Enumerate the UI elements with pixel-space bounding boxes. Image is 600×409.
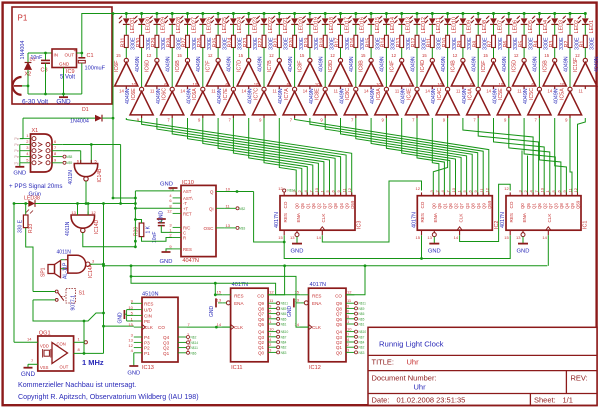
- LED LED6: [501, 16, 518, 34]
- junction: [13, 202, 16, 205]
- svg-text:Pe: Pe: [14, 149, 19, 153]
- wire Q fan IC2 pin8: [325, 118, 478, 196]
- svg-text:R7: R7: [488, 41, 494, 48]
- wire: [248, 48, 250, 59]
- node rail junction col 1: [125, 12, 128, 15]
- node rail junction col 22: [446, 12, 449, 15]
- wire: [81, 63, 83, 94]
- wire inverter input stub: [248, 86, 250, 89]
- wire: [554, 48, 556, 59]
- wire: [171, 24, 173, 35]
- svg-text:Q3: Q3: [465, 203, 470, 209]
- svg-text:4049N: 4049N: [472, 56, 478, 72]
- wire: [141, 48, 143, 88]
- junction: [214, 293, 217, 296]
- n.c. circles X1 pins: [63, 155, 66, 158]
- capacitor C9 10nF: [152, 223, 165, 243]
- counter IC11 4017N: [217, 282, 289, 371]
- resistor R4 330E: [534, 35, 550, 50]
- wire inverter input stub: [232, 115, 234, 118]
- wire: [248, 24, 250, 35]
- svg-text:R30: R30: [136, 38, 142, 48]
- svg-text:N$3: N$3: [281, 351, 287, 355]
- wire: [569, 48, 571, 88]
- svg-text:LED26: LED26: [207, 17, 213, 33]
- multivibrator IC10 4047N: [167, 180, 245, 264]
- svg-text:GND: GND: [59, 62, 70, 67]
- LED LED1: [578, 16, 595, 34]
- svg-text:U/D: U/D: [144, 308, 153, 313]
- svg-text:4011N: 4011N: [68, 170, 74, 185]
- svg-text:15: 15: [416, 235, 421, 240]
- inverter IC4C 4049N: [431, 82, 459, 123]
- svg-text:GND: GND: [56, 98, 71, 105]
- wire: [141, 14, 143, 19]
- node rail junction col 27: [523, 12, 526, 15]
- svg-text:CLK: CLK: [144, 325, 154, 330]
- inverter IC6F 4049N: [114, 53, 141, 94]
- resistor R8 330E: [472, 35, 488, 50]
- svg-text:4017N: 4017N: [500, 212, 506, 228]
- svg-text:Date:: Date:: [372, 396, 390, 405]
- svg-text:11: 11: [456, 89, 461, 94]
- svg-text:Q59: Q59: [487, 200, 492, 209]
- wire: [370, 24, 372, 35]
- resistor R15 330E: [365, 35, 381, 50]
- wire: [28, 363, 38, 365]
- wire Q fan IC3 pin9: [142, 118, 347, 196]
- resistor R3 330E: [549, 35, 565, 50]
- ground at QG1: [21, 364, 36, 378]
- svg-text:LED25: LED25: [222, 17, 228, 33]
- svg-text:Q8: Q8: [333, 203, 338, 209]
- wire Q fan IC1 pin4: [494, 118, 545, 196]
- svg-text:4049N: 4049N: [380, 56, 386, 72]
- LED LED38: [24, 195, 40, 213]
- wire Q fan IC3 pin8: [157, 118, 341, 196]
- wire inverter input stub: [141, 115, 143, 118]
- svg-text:14: 14: [119, 89, 124, 94]
- wire: [33, 291, 37, 293]
- nand gate IC14D 4011N: [65, 210, 100, 236]
- svg-text:LED23: LED23: [253, 17, 259, 33]
- svg-text:4047N: 4047N: [182, 258, 198, 264]
- inverter IC8C 4049N: [339, 82, 367, 123]
- node rail junction col 6: [201, 12, 204, 15]
- svg-text:4011N: 4011N: [57, 249, 72, 255]
- svg-text:4049N: 4049N: [227, 56, 233, 72]
- LED LED16: [348, 16, 365, 34]
- svg-text:CLK: CLK: [547, 213, 552, 223]
- wire inverter input stub: [340, 86, 342, 89]
- junction: [236, 190, 239, 193]
- svg-text:Q7: Q7: [459, 203, 464, 209]
- ground at C9: [157, 219, 166, 223]
- nand gate IC14B 4011N: [68, 159, 103, 185]
- svg-text:Q: Q: [210, 190, 214, 195]
- svg-text:IC12: IC12: [309, 365, 321, 371]
- svg-text:N$4: N$4: [281, 341, 287, 345]
- junction: [130, 275, 133, 278]
- wire +V to IC9 IN: [28, 52, 52, 54]
- svg-text:4049N: 4049N: [563, 56, 569, 72]
- wire: [508, 48, 510, 88]
- svg-text:N$7: N$7: [281, 335, 287, 339]
- svg-text:LED22: LED22: [268, 17, 274, 33]
- wire: [523, 14, 525, 19]
- wire: [232, 24, 234, 35]
- svg-text:Qi: Qi: [209, 206, 214, 211]
- wire: [538, 24, 540, 35]
- svg-text:14: 14: [180, 89, 185, 94]
- node rail junction col 28: [538, 12, 541, 15]
- svg-text:Q8: Q8: [559, 203, 564, 209]
- capacitor C1 100muF: [74, 48, 106, 72]
- svg-text:IC6E: IC6E: [131, 88, 137, 100]
- wire IC12 CO up: [346, 266, 365, 295]
- svg-text:R9: R9: [457, 41, 463, 48]
- node rail junction col 31: [584, 12, 587, 15]
- svg-text:IC8A: IC8A: [376, 88, 382, 100]
- junction: [102, 263, 105, 266]
- wire: [125, 24, 127, 35]
- wire: [217, 24, 219, 35]
- wire: [294, 48, 296, 88]
- svg-text:R12: R12: [411, 38, 417, 48]
- svg-text:N$2: N$2: [281, 346, 287, 350]
- ground at IC11 ENA: [218, 302, 222, 304]
- svg-text:11: 11: [211, 89, 216, 94]
- svg-text:10: 10: [499, 82, 504, 87]
- counter IC1 4017N: [500, 186, 589, 240]
- svg-text:12: 12: [514, 53, 519, 58]
- wire: [74, 352, 104, 354]
- wire +5V rail: [82, 14, 586, 54]
- svg-text:12: 12: [91, 210, 96, 215]
- svg-text:N$11: N$11: [281, 302, 289, 306]
- wire: [74, 341, 84, 343]
- svg-text:14: 14: [295, 322, 300, 327]
- svg-text:N$11: N$11: [359, 302, 367, 306]
- svg-text:10: 10: [540, 187, 545, 192]
- svg-text:GND: GND: [159, 211, 165, 223]
- wire: [309, 48, 311, 59]
- resistor R22 330E: [258, 35, 274, 50]
- wire IC1 Q0 stub: [521, 151, 523, 196]
- inverter IC5A 4049N: [554, 82, 582, 123]
- svg-text:12: 12: [208, 53, 213, 58]
- svg-text:Q59: Q59: [576, 200, 581, 209]
- wire Q fan IC3 pin0: [279, 118, 296, 196]
- node rail junction col 23: [461, 12, 464, 15]
- svg-text:LED12: LED12: [421, 17, 427, 33]
- wire IC10 Q out: [216, 191, 254, 193]
- node rail junction col 10: [263, 12, 266, 15]
- wire: [61, 259, 65, 261]
- capacitor C3 10nF: [31, 53, 51, 74]
- wire: [355, 24, 357, 35]
- node rail junction col 25: [492, 12, 495, 15]
- wire S1 top pin: [37, 291, 55, 293]
- svg-text:RES: RES: [420, 213, 425, 222]
- LED LED26: [195, 16, 212, 34]
- svg-text:12: 12: [330, 53, 335, 58]
- wire Q fan IC2 pin10: [295, 118, 489, 196]
- junction: [24, 202, 27, 205]
- svg-text:N$10: N$10: [281, 330, 289, 334]
- svg-text:10: 10: [560, 82, 565, 87]
- svg-text:Q6: Q6: [448, 203, 453, 209]
- svg-text:RES: RES: [234, 293, 243, 298]
- junction: [130, 264, 133, 267]
- svg-text:R33: R33: [28, 224, 34, 233]
- svg-text:Runnig Light Clock: Runnig Light Clock: [379, 340, 444, 349]
- LED LED20: [287, 16, 304, 34]
- resistor R9 330E: [457, 35, 473, 50]
- svg-text:LED30: LED30: [145, 17, 151, 33]
- LED LED31: [119, 16, 136, 34]
- svg-text:Kommerzieller Nachbau ist unte: Kommerzieller Nachbau ist untersagt.: [18, 381, 136, 389]
- svg-text:LED11: LED11: [436, 17, 442, 33]
- ground at IC1 ENA: [522, 237, 524, 244]
- junction: [102, 202, 105, 205]
- svg-text:N$7: N$7: [359, 335, 365, 339]
- inverter IC7F 4049N: [206, 53, 233, 94]
- resistor R13 330E: [396, 35, 412, 50]
- wire: [156, 14, 158, 19]
- svg-text:GND: GND: [160, 259, 173, 265]
- svg-text:LED19: LED19: [314, 17, 320, 33]
- resistor R1 330E: [580, 35, 596, 50]
- resistor R11 330E: [427, 35, 443, 50]
- svg-text:IC5C: IC5C: [529, 88, 535, 100]
- inverter IC5C 4049N: [523, 82, 551, 123]
- svg-text:X1: X1: [32, 128, 39, 134]
- LED LED24: [226, 16, 243, 34]
- svg-text:ENA: ENA: [312, 301, 322, 306]
- wire: [584, 24, 586, 35]
- svg-text:4017N: 4017N: [274, 212, 280, 228]
- inverter IC5D 4049N: [512, 53, 539, 94]
- svg-text:Q4: Q4: [163, 335, 170, 340]
- svg-text:P4: P4: [144, 335, 150, 340]
- wire: [462, 24, 464, 35]
- svg-text:12: 12: [167, 208, 172, 213]
- svg-text:N$6: N$6: [359, 312, 365, 316]
- svg-text:R26: R26: [197, 38, 203, 48]
- svg-text:R30: R30: [134, 227, 140, 236]
- wire: [232, 14, 234, 19]
- ground at IC3 ENA: [296, 237, 298, 244]
- node rail junction col 24: [477, 12, 480, 15]
- svg-text:14: 14: [27, 337, 32, 342]
- wire inverter input stub: [569, 115, 571, 118]
- svg-text:5 Volt: 5 Volt: [60, 75, 75, 81]
- svg-text:Q5: Q5: [258, 322, 265, 327]
- wire: [538, 48, 540, 88]
- junction: [76, 202, 79, 205]
- wire: [217, 14, 219, 19]
- wire Q fan IC2 pin5: [371, 118, 461, 196]
- svg-text:1 K: 1 K: [145, 225, 151, 233]
- svg-text:Q4: Q4: [476, 203, 481, 209]
- svg-text:IC8E: IC8E: [315, 88, 321, 100]
- svg-text:IC4D: IC4D: [420, 60, 426, 72]
- wire: [340, 14, 342, 19]
- inverter IC4B 4049N: [451, 53, 478, 94]
- svg-text:15: 15: [422, 53, 427, 58]
- LED LED18: [318, 16, 335, 34]
- svg-text:13: 13: [217, 298, 222, 303]
- node rail junction col 8: [232, 12, 235, 15]
- wire to IC11 RES: [215, 283, 222, 295]
- wire: [569, 24, 571, 35]
- wire: [133, 353, 135, 366]
- svg-text:Sheet:: Sheet:: [534, 396, 556, 405]
- svg-text:RES: RES: [144, 301, 153, 306]
- wire reset feed: [254, 192, 285, 243]
- svg-text:10: 10: [314, 187, 319, 192]
- svg-text:TITLE:: TITLE:: [372, 358, 395, 367]
- wire: [569, 14, 571, 19]
- svg-text:RET: RET: [183, 211, 192, 216]
- wire: [27, 86, 29, 94]
- wire to +T: [135, 207, 172, 209]
- wire vertical feed: [112, 14, 114, 199]
- svg-text:N$3: N$3: [359, 351, 365, 355]
- inverter IC4A 4049N: [462, 82, 490, 123]
- svg-text:14: 14: [303, 89, 308, 94]
- svg-text:N$3: N$3: [239, 227, 245, 231]
- svg-text:GND: GND: [287, 306, 293, 318]
- svg-text:P1: P1: [144, 351, 150, 356]
- wire IC1 CO to IC2 CLK: [460, 184, 511, 241]
- resistor R27 330E: [182, 35, 198, 50]
- svg-text:100muF: 100muF: [85, 66, 106, 72]
- wire: [120, 145, 122, 204]
- svg-text:10: 10: [131, 82, 136, 87]
- node rail junction col 20: [416, 12, 419, 15]
- svg-text:N$6: N$6: [191, 351, 197, 355]
- LED LED21: [272, 16, 289, 34]
- svg-text:GND: GND: [118, 312, 124, 324]
- wire X2 to D2: [22, 85, 28, 87]
- svg-text:ENA: ENA: [433, 212, 438, 222]
- wire: [90, 145, 92, 164]
- svg-text:N$2: N$2: [239, 207, 245, 211]
- svg-text:LED38: LED38: [24, 195, 40, 201]
- wire: [131, 302, 134, 304]
- svg-text:ENA: ENA: [234, 301, 244, 306]
- svg-text:OUT: OUT: [60, 365, 69, 370]
- svg-text:N$14: N$14: [191, 341, 199, 345]
- svg-text:15: 15: [544, 53, 549, 58]
- wire: [217, 48, 219, 59]
- wire Q fan IC2 pin4: [386, 118, 455, 196]
- wire R30 top: [135, 220, 141, 224]
- node rail junction col 3: [155, 12, 158, 15]
- ground at IC10 top: [160, 182, 177, 191]
- junction: [283, 241, 286, 244]
- svg-text:S1: S1: [79, 291, 85, 297]
- junction: [44, 93, 47, 96]
- node rail junction col 14: [324, 12, 327, 15]
- svg-text:IC5B: IC5B: [542, 60, 548, 72]
- svg-text:R20: R20: [289, 38, 295, 48]
- wire Q fan IC2 pin0: [433, 118, 447, 196]
- wire: [324, 14, 326, 19]
- svg-text:IC8D: IC8D: [328, 60, 334, 72]
- junction: [215, 326, 218, 329]
- LED LED8: [471, 16, 488, 34]
- wire D1 out: [102, 117, 113, 119]
- wire: [554, 14, 556, 19]
- svg-text:R5: R5: [518, 41, 524, 48]
- svg-text:12: 12: [416, 186, 421, 191]
- regulator IC9 5 Volt: [52, 49, 77, 81]
- inverter IC6D 4049N: [145, 53, 172, 94]
- svg-text:AST: AST: [183, 189, 192, 194]
- wire: [431, 48, 433, 59]
- LED LED5: [517, 16, 534, 34]
- inverter IC15F 4049N: [573, 53, 600, 94]
- svg-text:LED21: LED21: [283, 17, 289, 33]
- wire inverter input stub: [355, 115, 357, 118]
- svg-text:LED29: LED29: [161, 17, 167, 33]
- svg-text:4049N: 4049N: [594, 56, 600, 72]
- svg-text:Pe: Pe: [14, 155, 19, 159]
- junction: [112, 117, 115, 120]
- svg-text:10: 10: [376, 82, 381, 87]
- svg-text:10: 10: [254, 82, 259, 87]
- svg-text:330 E: 330 E: [18, 219, 24, 233]
- svg-text:GND: GND: [517, 249, 530, 255]
- wire Q fan IC3 pin3: [233, 118, 312, 196]
- svg-text:IC5D: IC5D: [512, 60, 518, 72]
- svg-text:11: 11: [578, 89, 583, 94]
- svg-text:R16: R16: [350, 38, 356, 48]
- wire: [340, 48, 342, 59]
- wire: [309, 24, 311, 35]
- svg-text:12: 12: [575, 53, 580, 58]
- wire Q fan IC3 pin7: [172, 118, 335, 196]
- svg-text:14: 14: [242, 89, 247, 94]
- wire Q fan IC1 pin6: [524, 118, 555, 196]
- svg-text:4049N: 4049N: [441, 56, 447, 72]
- junction: [90, 143, 93, 146]
- wire: [14, 203, 28, 205]
- wire inverter input stub: [416, 115, 418, 118]
- svg-text:4049N: 4049N: [288, 56, 294, 72]
- svg-text:+: +: [74, 48, 77, 54]
- wire inverter input stub: [584, 86, 586, 89]
- wire: [538, 14, 540, 19]
- svg-text:Q1: Q1: [443, 203, 448, 209]
- node rail junction col 17: [370, 12, 373, 15]
- wire Q fan IC1 pin9: [570, 118, 572, 196]
- switch S1 9077-1: [55, 289, 85, 311]
- svg-text:N$4: N$4: [359, 341, 365, 345]
- wire: [447, 14, 449, 19]
- svg-text:13: 13: [295, 298, 300, 303]
- svg-text:330E: 330E: [590, 37, 596, 50]
- wire Q fan IC2 pin6: [356, 118, 467, 196]
- inverter IC8F 4049N: [298, 53, 325, 94]
- wire Q fan IC1 pin8: [555, 118, 567, 196]
- svg-text:LED18: LED18: [329, 17, 335, 33]
- svg-text:LED14: LED14: [390, 17, 396, 33]
- wire: [462, 14, 464, 19]
